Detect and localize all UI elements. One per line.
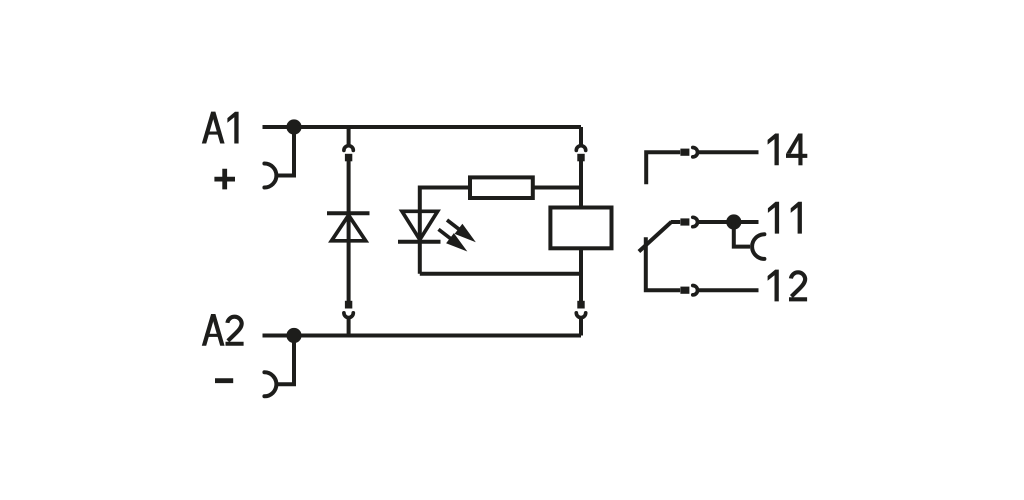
diode D1 cathode bar	[327, 211, 370, 215]
label 12	[768, 270, 808, 302]
label plus	[214, 169, 235, 190]
wire contact 11 stub	[671, 220, 680, 224]
connector pin bottom of relay branch	[577, 301, 584, 309]
wire diode branch top	[347, 127, 351, 146]
node A2 junction dot	[286, 328, 301, 343]
wire below coil	[579, 248, 583, 301]
connector socket 12	[693, 286, 698, 295]
label 14	[768, 134, 808, 166]
wire 12	[698, 288, 759, 292]
wire common to 12	[646, 237, 680, 290]
LED light arrow 1	[443, 215, 480, 247]
wire resistor to coil branch	[533, 186, 581, 190]
connector pin top of diode branch	[345, 154, 352, 162]
connector socket 11	[693, 217, 698, 226]
wire contact 14 stub	[646, 152, 680, 184]
wire A1 to clamp	[278, 127, 294, 176]
connector pin bottom of diode branch	[345, 301, 352, 309]
wire relay branch top	[579, 127, 583, 146]
wire diode branch	[347, 161, 351, 301]
LED triangle	[402, 211, 438, 239]
connector pin 11	[680, 218, 689, 225]
terminal clamp 11	[752, 234, 764, 259]
terminal clamp A1	[264, 164, 276, 188]
wire A1 horizontal	[263, 125, 582, 129]
connector socket 14	[693, 148, 698, 157]
node A1 junction dot	[286, 119, 301, 134]
wire 14	[698, 150, 759, 154]
LED cathode bar	[398, 240, 441, 244]
LED light arrow 2	[435, 224, 472, 256]
wire stem to A2	[347, 317, 351, 335]
connector socket top of relay branch	[576, 146, 585, 151]
wire 11 to clamp	[734, 222, 750, 247]
relay coil K1	[550, 208, 611, 249]
connector pin 12	[680, 287, 689, 294]
wire LED loop left	[420, 188, 468, 274]
connector pin top of relay branch	[577, 154, 584, 162]
label 11	[768, 202, 802, 234]
terminal clamp A2	[264, 372, 276, 396]
wire LED loop bottom	[420, 272, 581, 276]
resistor R1	[470, 177, 533, 198]
diode D1 triangle	[332, 215, 366, 241]
connector socket top of diode branch	[344, 146, 353, 151]
connector socket bottom of diode branch	[344, 313, 353, 318]
node 11 junction dot	[726, 214, 741, 229]
connector pin 14	[680, 149, 689, 156]
switch lever	[639, 222, 672, 252]
wire A2 to clamp	[278, 336, 294, 385]
label A2	[202, 314, 244, 346]
label A1	[202, 112, 239, 144]
label minus	[215, 378, 233, 383]
wire 11	[698, 220, 759, 224]
connector socket bottom of relay branch	[576, 313, 585, 318]
wire stem to A2	[579, 317, 583, 335]
wire to coil	[579, 161, 583, 206]
wire A2 horizontal	[263, 334, 582, 338]
